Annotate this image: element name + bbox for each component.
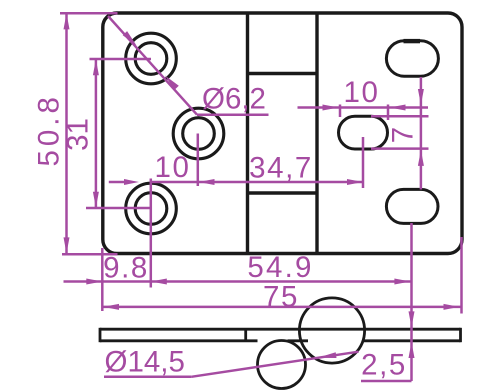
dim 10 right lead-in line: [298, 106, 339, 109]
dim 10 left arrow left: [199, 179, 215, 185]
slot top-right: [386, 41, 438, 76]
leader 6.2 arrow lower: [165, 76, 179, 91]
slot top-right thick mark: [404, 39, 421, 43]
dim 2.5 arrow down: [409, 311, 415, 327]
dim 7 arrow up: [418, 150, 424, 166]
dim 10 right dimension line: [339, 106, 429, 109]
slot bottom-right: [386, 189, 438, 223]
side view bar bottom edge right: [363, 339, 461, 342]
svg-text:10: 10: [343, 76, 379, 109]
side view barrel circle: [299, 298, 364, 363]
svg-text:75: 75: [263, 280, 299, 313]
dim 50.8 line: [65, 14, 68, 253]
dim 7 ext line top: [371, 115, 429, 118]
slot centerline long vertical: [410, 223, 413, 381]
dim 31 line: [95, 60, 98, 208]
dim 75 arrow left: [103, 304, 119, 310]
barrel right line: [315, 15, 318, 253]
svg-text:54.9: 54.9: [247, 251, 313, 284]
hinge plate outline: [103, 13, 462, 254]
knuckle joint lower: [249, 191, 316, 194]
dim 31 arrow up: [93, 59, 99, 75]
dim 10 left / 34.7 dimension line: [109, 181, 126, 184]
dim 50.8 top extension line: [60, 12, 118, 15]
dim 14.5 leader diagonal: [191, 352, 358, 377]
dim 31 arrow down: [93, 192, 99, 208]
side view pin circle: [258, 341, 306, 389]
svg-text:7: 7: [387, 125, 420, 143]
dim 2.5 underline: [361, 380, 412, 383]
dim 75 arrow right: [444, 304, 460, 310]
bottom hole centerline: [150, 179, 153, 288]
svg-text:10: 10: [154, 151, 190, 184]
dim 50.8 bottom extension line: [62, 253, 118, 256]
hole bottom-left outer: [126, 183, 177, 234]
dim 10 left arrow right: [124, 179, 139, 185]
hole top-left inner: [135, 43, 167, 75]
hole middle inner: [183, 118, 215, 150]
svg-text:Ø14,5: Ø14,5: [105, 346, 185, 379]
dim 31 top extension line: [90, 58, 152, 61]
left edge extension line: [101, 248, 104, 311]
dim 7 ext line bottom: [371, 147, 429, 150]
dim 10 right ext line right: [387, 105, 390, 121]
side view bar top edge: [100, 328, 461, 331]
dim 9.8 54.9 dimension line: [64, 280, 412, 283]
dim 14.5 underline: [104, 376, 191, 379]
side view bar right cap: [459, 328, 462, 342]
side view bar bottom edge left: [100, 339, 258, 342]
leader 6.2 arrow upper: [123, 31, 137, 45]
dim 75 dimension line: [103, 306, 461, 309]
dim 14.5 leader arrow: [317, 352, 336, 358]
dim 7 arrow down: [418, 89, 424, 105]
hole middle outer: [173, 108, 224, 159]
knuckle joint upper: [249, 72, 316, 75]
dim 31 bottom extension line: [86, 207, 151, 210]
dim 10 right ext tick left: [339, 105, 342, 118]
dim 9.8 arrow left: [151, 279, 167, 285]
right edge extension line: [460, 237, 463, 314]
dim 54.9 arrow right: [394, 279, 410, 285]
svg-text:9.8: 9.8: [103, 252, 149, 285]
dim 10 right arrow right: [323, 105, 339, 111]
svg-text:34,7: 34,7: [249, 152, 313, 185]
hole top-left outer: [126, 33, 177, 84]
side view leaf division tick: [244, 329, 247, 341]
middle hole centerline: [197, 134, 200, 187]
barrel left line: [246, 15, 249, 253]
dim 9.8 arrow right: [86, 279, 102, 285]
slot middle-right: [339, 116, 388, 149]
svg-text:Ø6,2: Ø6,2: [202, 83, 266, 116]
svg-text:31: 31: [62, 118, 95, 151]
dim 7 vertical line: [420, 77, 423, 190]
dim 34.7 arrow right: [347, 179, 363, 185]
leader 6.2 underline: [197, 113, 269, 116]
side view bar bottom edge mid: [288, 339, 309, 342]
dim 2.5 arrow up: [409, 342, 415, 358]
svg-text:2,5: 2,5: [361, 349, 407, 382]
dim 10 right arrow left: [390, 105, 406, 111]
leader 6.2 diagonal line: [108, 16, 197, 115]
hole bottom-left inner: [135, 193, 167, 225]
middle slot centerline: [362, 137, 365, 188]
dim 50.8 arrow up: [64, 13, 70, 29]
side view bar left cap: [99, 328, 102, 342]
dim 50.8 arrow down: [64, 237, 70, 253]
